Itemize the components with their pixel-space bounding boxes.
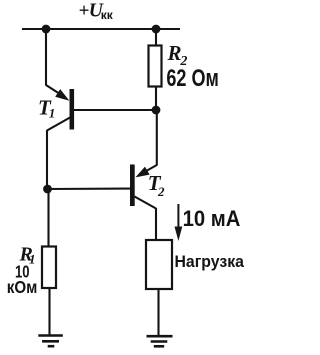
svg-text:Нагрузка: Нагрузка <box>175 253 245 271</box>
transistor T1 emitter arrowhead (PNP, pointing into bar) <box>55 89 69 101</box>
ground symbol left <box>38 336 63 347</box>
node A: R2 / T1 base / T2 emitter junction <box>152 106 161 115</box>
wire: +Ukk top supply rail <box>22 28 180 30</box>
svg-text:1: 1 <box>29 252 36 267</box>
transistor T2 base bar <box>130 165 135 207</box>
wire: T1 emitter vertical drop from rail <box>45 29 47 86</box>
node B: T1 collector / T2 base / R1 junction <box>43 185 52 194</box>
svg-text:кОм: кОм <box>7 277 38 297</box>
wire: T2 base horizontal from node B <box>48 188 131 190</box>
ground symbol right <box>147 336 173 346</box>
wire: T1 base horizontal to node A <box>74 109 156 111</box>
wire: T2 emitter diagonal into base bar <box>141 165 157 174</box>
node: supply junction right <box>152 25 161 34</box>
transistor T2 emitter arrowhead (PNP, pointing into bar) <box>135 167 149 178</box>
resistor R1 body <box>42 247 56 289</box>
wire: T1 emitter diagonal into base bar <box>46 85 63 96</box>
svg-text:кк: кк <box>101 8 114 22</box>
svg-text:+: + <box>79 1 90 22</box>
wire: T2 collector diagonal from base bar <box>135 197 157 209</box>
wire: R2 top lead from rail <box>155 29 157 46</box>
svg-text:10 мА: 10 мА <box>183 206 241 231</box>
current arrow 10 mA head <box>175 227 183 242</box>
svg-text:62 Ом: 62 Ом <box>166 65 218 92</box>
wire: R2 bottom lead to node A <box>155 86 157 110</box>
wire: R1 top lead from node B <box>47 189 49 247</box>
svg-text:2: 2 <box>157 184 165 199</box>
wire: T2 emitter vertical from node A <box>156 110 158 166</box>
load box (Нагрузка) <box>146 240 172 289</box>
svg-text:1: 1 <box>49 106 56 121</box>
wire: T1 collector vertical down to node B <box>46 130 48 189</box>
wire: load bottom lead to ground <box>157 289 159 336</box>
wire: T1 collector diagonal from base bar <box>47 118 70 131</box>
svg-text:R: R <box>167 41 182 65</box>
resistor R2 body <box>149 46 162 87</box>
node: supply junction left <box>42 25 51 34</box>
wire: T2 collector vertical down to load <box>155 208 157 240</box>
current arrow 10 mA shaft <box>177 204 179 230</box>
wire: R1 bottom lead to ground <box>48 288 50 335</box>
transistor T1 base bar <box>70 89 75 130</box>
